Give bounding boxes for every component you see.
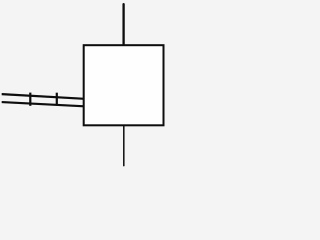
- bus wire bottom: [2, 102, 85, 106]
- bottom pin wire: [123, 125, 125, 165]
- bus tick 2: [56, 93, 58, 106]
- bus tick 1: [29, 93, 31, 106]
- top pin wire: [122, 4, 124, 46]
- block U1: [84, 45, 164, 125]
- bus wire top: [2, 94, 85, 99]
